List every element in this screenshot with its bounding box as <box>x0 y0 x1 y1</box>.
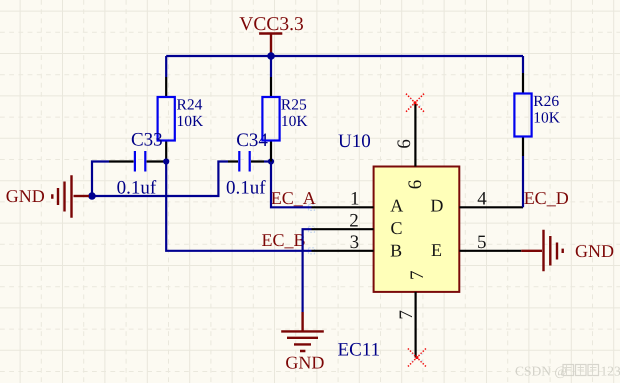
junction C34 / R25 node <box>268 158 274 164</box>
svg-text:4: 4 <box>477 188 487 209</box>
pin name D <box>430 196 443 216</box>
resistor R26 <box>514 56 560 156</box>
svg-text:D: D <box>430 196 443 216</box>
svg-text:EC_A: EC_A <box>271 188 316 208</box>
svg-text:GND: GND <box>6 186 45 206</box>
wire node A to pin 3 (EC_B) <box>166 162 311 251</box>
resistor R25 <box>262 56 308 162</box>
svg-text:3: 3 <box>350 232 360 253</box>
wire C34 right pin to node <box>264 160 271 162</box>
IC U10 designator <box>338 131 371 152</box>
net label EC_D <box>524 188 569 208</box>
net label EC_A <box>271 188 316 208</box>
earth ground GND bottom <box>281 312 324 372</box>
power ground GND left <box>6 175 89 218</box>
svg-text:GND: GND <box>575 241 614 261</box>
resistor R24 <box>158 77 204 162</box>
svg-text:6: 6 <box>394 139 415 149</box>
pin 1 <box>312 188 374 209</box>
no-ERC marker bottom <box>408 349 426 367</box>
svg-text:7: 7 <box>407 271 428 281</box>
svg-text:C33: C33 <box>131 129 163 150</box>
watermark <box>515 364 620 379</box>
svg-text:VCC3.3: VCC3.3 <box>239 14 303 35</box>
svg-text:E: E <box>431 240 442 260</box>
svg-text:EC_B: EC_B <box>262 230 306 250</box>
pin name E <box>431 240 442 260</box>
power ground GND right <box>521 230 614 272</box>
svg-text:GND: GND <box>285 352 324 372</box>
junction ground node left <box>88 192 96 200</box>
wire pin 2 down to ground <box>303 229 312 312</box>
wire rail to R24 <box>165 56 167 77</box>
IC U10 body <box>374 167 460 292</box>
capacitor C34 <box>226 130 268 199</box>
svg-text:1: 1 <box>350 188 360 209</box>
svg-text:A: A <box>390 196 403 216</box>
junction C33 / R24 node <box>163 158 169 164</box>
pin 5 <box>459 232 521 253</box>
svg-text:6: 6 <box>405 180 426 190</box>
svg-text:123: 123 <box>601 364 620 379</box>
pin 7 wire <box>396 292 417 358</box>
pin 6 wire <box>394 103 415 167</box>
pin name 7 <box>407 271 428 281</box>
svg-text:R24: R24 <box>177 97 203 114</box>
svg-text:CSDN @: CSDN @ <box>515 364 567 379</box>
pin 3 <box>312 232 374 253</box>
wire C33 left loop to ground node <box>92 162 109 197</box>
power VCC3.3 <box>239 14 303 56</box>
pin name 6 <box>405 180 426 190</box>
net label EC_B <box>262 230 306 250</box>
net label EC11 <box>338 339 381 360</box>
svg-text:R26: R26 <box>533 93 559 110</box>
pin 2 <box>312 210 374 231</box>
svg-text:5: 5 <box>477 232 487 253</box>
svg-text:10K: 10K <box>281 113 309 130</box>
capacitor C33 <box>109 129 164 198</box>
junction VCC rail <box>267 52 275 60</box>
svg-text:B: B <box>390 240 402 260</box>
svg-text:7: 7 <box>396 310 417 320</box>
wire ground node to C34 left loop <box>92 162 228 197</box>
pin name B <box>390 240 402 260</box>
svg-text:0.1uf: 0.1uf <box>226 178 266 199</box>
wire top rail <box>166 55 523 57</box>
no-ERC marker top <box>406 94 424 112</box>
pin name C <box>391 218 403 238</box>
svg-text:U10: U10 <box>338 131 371 152</box>
svg-text:2: 2 <box>349 210 359 231</box>
wire R26 bottom to pin 4 corner <box>522 156 524 207</box>
svg-text:10K: 10K <box>533 110 561 127</box>
wire node B to pin 1 (EC_A) <box>271 162 312 208</box>
svg-text:EC11: EC11 <box>338 339 381 360</box>
pin 4 <box>459 188 523 209</box>
svg-text:EC_D: EC_D <box>524 188 569 208</box>
svg-text:R25: R25 <box>281 97 307 114</box>
pin name A <box>390 196 403 216</box>
svg-text:C: C <box>391 218 403 238</box>
pin hotspot marks <box>309 204 315 253</box>
svg-text:10K: 10K <box>177 113 205 130</box>
